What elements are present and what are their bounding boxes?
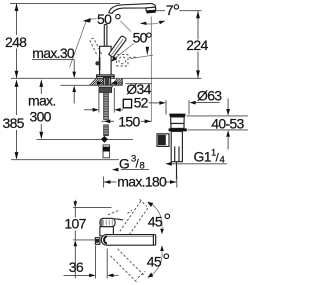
wall protrusion <box>95 238 100 245</box>
svg-text:45: 45 <box>147 254 162 270</box>
7 deg arc with arrows <box>141 21 164 24</box>
45 deg lower arc arrows <box>160 245 164 251</box>
dia 34 arrows at shank <box>97 81 103 85</box>
deck bottom line <box>61 84 123 86</box>
svg-text:107: 107 <box>64 216 86 232</box>
side knob on body <box>95 61 99 65</box>
water extension line from outlet <box>150 17 152 123</box>
deck hatching right <box>111 79 122 86</box>
svg-text:G: G <box>119 156 129 172</box>
pop-up waste flange <box>171 117 185 124</box>
lever upright <box>103 25 105 47</box>
spout bar (side) <box>101 235 155 246</box>
upper dashed swivel rect <box>108 199 148 238</box>
hose with G3/8 nut <box>103 145 110 158</box>
dimension 150 <box>102 120 115 122</box>
square 52 dim arrows <box>98 88 100 113</box>
faucet body <box>100 46 112 75</box>
svg-text:224: 224 <box>186 37 208 53</box>
dimension 36 <box>95 246 97 279</box>
7 deg label with side lines <box>156 10 166 12</box>
50 deg no.1 angle line <box>70 21 87 68</box>
threaded rod lower segment <box>104 125 109 136</box>
dimension 248 <box>16 3 18 35</box>
hose length reference line <box>37 138 134 140</box>
hose end line <box>11 159 119 161</box>
dashed aerator phantom (right) <box>117 55 128 66</box>
50 deg no.2 tilted base line <box>131 55 154 59</box>
dimension 224 <box>197 11 199 40</box>
svg-text:G1: G1 <box>194 149 212 165</box>
dimension 107 <box>74 200 76 202</box>
dimension max.180 <box>103 177 105 188</box>
dia 34 label <box>125 83 152 85</box>
deck top line <box>11 77 201 79</box>
svg-text:36: 36 <box>69 259 84 275</box>
pop-up side outlet <box>157 134 169 147</box>
handle grip (plan) <box>100 218 115 226</box>
svg-text:45: 45 <box>148 214 163 230</box>
lower dashed swivel rect <box>110 249 145 282</box>
threaded rod upper segment <box>104 92 109 119</box>
pop-up tailpipe <box>171 131 182 161</box>
svg-text:7: 7 <box>166 2 174 18</box>
pop-up waste plug (black) <box>169 114 185 117</box>
top extension line (248 ref) <box>10 2 120 4</box>
50 deg no.2 down arrow <box>145 47 148 50</box>
dimension 385 <box>16 87 18 115</box>
dimension max.300 <box>40 87 42 94</box>
deck right edge tick <box>121 78 123 85</box>
50 deg no.2 line from lever top <box>121 21 132 32</box>
spout left cap dark arc <box>104 236 107 243</box>
svg-text:Ø63: Ø63 <box>197 88 222 104</box>
svg-text:52: 52 <box>134 95 149 111</box>
svg-text:max.: max. <box>28 93 56 109</box>
svg-text:max.180: max.180 <box>117 173 167 189</box>
pop-up rod below <box>176 162 178 180</box>
svg-text:max.30: max.30 <box>32 45 75 61</box>
pop-up waste extension lines <box>165 100 167 114</box>
svg-text:300: 300 <box>30 109 52 125</box>
45 deg upper arc arrows <box>160 229 164 235</box>
svg-text:150: 150 <box>118 113 140 129</box>
pop-up waste neck <box>171 124 184 129</box>
base escutcheon <box>97 75 115 78</box>
dimension 40-53 <box>187 115 249 117</box>
50 deg no.2 leader to body <box>112 44 134 61</box>
svg-text:248: 248 <box>5 34 27 50</box>
solid tilted lever <box>109 36 126 57</box>
dashed lever (left phantom) <box>90 38 101 56</box>
svg-text:40-53: 40-53 <box>211 115 244 131</box>
spout outlet / aerator <box>146 7 156 11</box>
washer and nut below deck <box>99 85 112 87</box>
deck hatching left <box>90 79 104 86</box>
body square (plan) <box>100 227 114 236</box>
spout body <box>109 4 156 14</box>
svg-text:385: 385 <box>3 115 25 131</box>
50 deg no.1 arc arrow <box>90 18 97 21</box>
hose connector diamond <box>101 136 108 143</box>
threaded shank through deck <box>104 77 111 85</box>
square 52 label <box>123 99 131 108</box>
pop-up waste locknut <box>169 128 187 131</box>
svg-text:50: 50 <box>97 11 112 27</box>
svg-text:50: 50 <box>133 30 148 46</box>
